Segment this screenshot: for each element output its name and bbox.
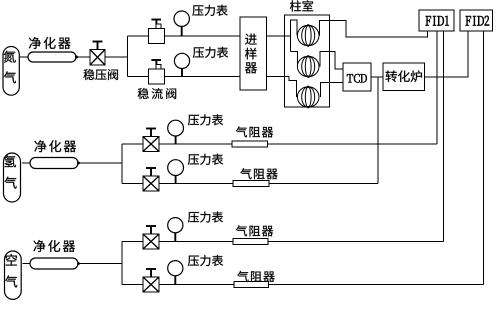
TCD box: [343, 63, 371, 91]
label 气阻器 (AIR b1): [236, 225, 273, 236]
wire coil1 inlet jog: [290, 20, 297, 52]
restrictor 气阻器 (AIR branch2): [234, 282, 269, 288]
wire H2 branch1 long: [268, 143, 438, 145]
wire: [159, 183, 233, 185]
wire TCD-furnace: [371, 76, 383, 78]
label 气 (air cylinder): [5, 275, 17, 287]
label 进样器 vertical: [245, 34, 257, 74]
junction dot (H2 purifier): [77, 162, 80, 165]
wire H2b1 to FID1: [436, 31, 438, 144]
label 空: [6, 254, 17, 266]
column coil 3: [297, 86, 319, 109]
column coil 1: [297, 24, 319, 47]
label 气 (H2 cylinder): [4, 177, 16, 189]
label 压力表 (H2 b1): [188, 114, 223, 125]
wire: [78, 162, 122, 164]
regulator valve (AIR branch1): [143, 226, 159, 249]
injector box 进样器: [240, 17, 267, 90]
wire coil3 inlet jog: [289, 77, 296, 98]
wire injector out1: [267, 35, 291, 37]
label 转化炉: [386, 70, 422, 82]
wire: [78, 263, 122, 265]
pressure gauge (AIR branch1): [168, 218, 183, 242]
wire AIRb1 to FID1: [443, 31, 445, 242]
pressure gauge (AIR branch2): [168, 261, 183, 285]
wire: [159, 143, 232, 145]
wire: [105, 56, 128, 58]
wire: [165, 35, 241, 37]
regulator valve (H2 branch1): [143, 129, 159, 152]
wire: [76, 56, 90, 58]
FID2 box: [460, 10, 493, 31]
purifier capsule (H2): [30, 158, 78, 169]
label TCD: [347, 74, 367, 83]
column coil 2: [297, 55, 319, 78]
wire: [20, 56, 28, 58]
wire coil2 inlet jog: [290, 52, 297, 67]
regulator valve (H2 branch2): [143, 168, 159, 191]
label 净化器 (N2): [29, 37, 71, 49]
wire: [165, 76, 241, 78]
wire: [159, 284, 234, 286]
label 气 (N2 cylinder): [4, 71, 16, 83]
gas cylinder AIR (空气): [5, 251, 22, 299]
pressure gauge (N2 branch2): [174, 53, 189, 76]
wire AIR branch1 long: [268, 241, 444, 243]
restrictor 气阻器 (H2 branch1): [232, 141, 268, 147]
pressure regulator valve 稳压阀: [90, 42, 105, 66]
pressure gauge (N2 branch1): [174, 11, 189, 36]
wire coil2 outlet to TCD: [320, 52, 343, 69]
wire AIR branch2 long: [269, 284, 484, 286]
wire: [122, 183, 143, 185]
column oven box 柱室: [285, 15, 330, 107]
label 净化器 (AIR): [33, 240, 75, 252]
label 稳流阀: [138, 88, 177, 99]
label 净化器 (H2): [34, 140, 76, 152]
junction dot: [75, 56, 78, 59]
gas cylinder H2 (氢气): [4, 153, 21, 202]
methanizer box 转化炉: [383, 63, 425, 91]
wire furnace to FID2: [425, 31, 469, 77]
label 压力表 (AIR b2): [188, 255, 223, 266]
split node vertical (AIR): [121, 242, 123, 285]
split node vertical (N2): [127, 36, 129, 77]
pressure gauge (H2 branch1): [168, 120, 184, 144]
label 压力表 (AIR b1): [188, 212, 223, 223]
wire: [23, 263, 31, 265]
restrictor 气阻器 (H2 branch2): [233, 181, 269, 187]
gas cylinder N2 (氮气): [3, 47, 19, 96]
wire branch2: [128, 76, 149, 78]
wire injector out2: [267, 76, 290, 78]
label 氢: [4, 155, 16, 167]
purifier capsule (N2): [28, 52, 76, 62]
split node vertical (H2): [121, 144, 123, 184]
wire: [122, 143, 143, 145]
label FID2: [466, 16, 490, 26]
wire: [22, 162, 30, 164]
label FID1: [426, 16, 449, 26]
label 气阻器 (H2 b1): [236, 126, 273, 137]
wire coil1 outlet to FID1: [320, 21, 428, 38]
wire: [122, 284, 143, 286]
wire branch1: [128, 35, 149, 37]
wire coil3 outlet to TCD: [321, 83, 344, 98]
label 压力表 (N2 b1): [192, 5, 227, 16]
label 稳压阀: [83, 69, 118, 80]
flow valve 稳流阀 (N2 branch1): [149, 20, 165, 44]
wire: [122, 241, 143, 243]
junction vertical (H2 b2 feed): [377, 77, 379, 184]
flow valve 稳流阀 (N2 branch2): [149, 60, 165, 84]
label 气阻器 (AIR b2): [237, 271, 274, 282]
label 柱室: [290, 0, 313, 11]
wire: [159, 241, 233, 243]
label 氮: [4, 51, 16, 63]
label 压力表 (N2 b2): [193, 47, 228, 58]
purifier capsule (AIR): [30, 258, 78, 269]
junction dot (AIR purifier): [77, 262, 80, 265]
FID1 box: [419, 10, 454, 31]
label 压力表 (H2 b2): [188, 154, 223, 165]
wire AIRb2 to FID2: [482, 31, 484, 285]
label 气阻器 (H2 b2): [240, 168, 277, 179]
pressure gauge (H2 branch2): [168, 160, 184, 184]
restrictor 气阻器 (AIR branch1): [233, 239, 268, 245]
wire H2 branch2 long: [269, 183, 378, 185]
regulator valve (AIR branch2): [143, 269, 159, 292]
